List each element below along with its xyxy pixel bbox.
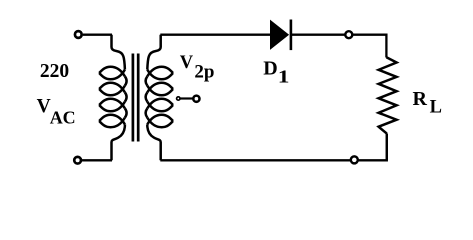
node: secondary tap junction <box>177 97 180 100</box>
label: 220 VAC source value <box>37 61 76 127</box>
terminal: AC input top <box>75 31 82 38</box>
wire: secondary top lead to diode anode <box>160 34 270 36</box>
transformer T1 secondary winding <box>146 35 173 161</box>
transformer core <box>133 54 138 142</box>
terminal: AC input bottom <box>74 157 81 164</box>
svg-text:L: L <box>430 98 442 118</box>
terminal: V2p tap output <box>193 96 199 102</box>
wire: resistor bottom lead <box>386 133 388 160</box>
wire: diode cathode to output node <box>292 35 386 58</box>
wire: tap lead <box>180 97 193 99</box>
svg-text:R: R <box>413 88 428 110</box>
svg-text:1: 1 <box>278 66 290 87</box>
wire: secondary bottom lead / bottom return wire <box>160 134 386 160</box>
wire: bottom-left input lead <box>82 159 112 161</box>
diode D1 <box>271 20 291 51</box>
svg-text:V: V <box>37 96 51 117</box>
svg-text:D: D <box>263 58 277 80</box>
svg-text:AC: AC <box>50 108 76 128</box>
wire: top-left input lead <box>83 34 112 36</box>
label: D1 diode <box>263 58 289 87</box>
svg-text:220: 220 <box>40 61 69 82</box>
node: bottom output node <box>351 156 358 163</box>
label: RL load resistor <box>413 88 442 118</box>
transformer T1 primary winding <box>99 35 126 161</box>
svg-text:V: V <box>180 53 194 73</box>
node: top output node <box>345 31 352 38</box>
svg-text:2p: 2p <box>194 62 214 83</box>
label: V2p secondary voltage <box>180 53 215 82</box>
resistor RL <box>379 57 397 133</box>
